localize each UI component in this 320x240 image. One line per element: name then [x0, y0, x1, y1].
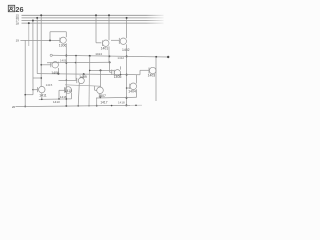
wire vertical from bus 16 to Q2 drain	[126, 18, 128, 38]
junction input line / box corner	[49, 39, 51, 41]
svg-text:1414: 1414	[95, 52, 102, 56]
wire vertical from H5 to Q5 gate rail	[75, 56, 77, 81]
junction on bottom rail at x97	[96, 105, 98, 107]
wire tie from x33 to vertical B	[33, 77, 41, 79]
terminal circle at H5 left end	[50, 54, 52, 56]
svg-text:1411: 1411	[39, 93, 46, 97]
wire vertical from bus 17 down to tie	[32, 21, 34, 95]
wire Q0 source chain down to bottom rail	[65, 43, 67, 106]
junction on bottom rail at x89	[88, 105, 89, 106]
wire vertical from bus 18 fading	[28, 23, 30, 46]
wire Q9 drain stub	[120, 66, 122, 69]
wire Q6 source to H7 left	[41, 93, 43, 99]
junction on H7 left at x42	[41, 99, 43, 101]
transistor Q11 1403 gate bar	[148, 68, 150, 74]
transistor Q7 1410 gate bar	[64, 87, 66, 92]
wire Q8 source to H7	[99, 94, 101, 98]
wire Q8 gate elbow	[95, 86, 97, 90]
svg-text:1418: 1418	[118, 101, 125, 105]
junction on H5 at x127	[126, 55, 128, 57]
junction on bottom rail at x78	[77, 105, 79, 107]
junction on line H5 at x66	[65, 55, 67, 57]
wire faint continuation x89 to bottom rail	[88, 70, 90, 105]
svg-text:26: 26	[15, 5, 23, 14]
transistor Q7 1410	[65, 87, 72, 94]
wire Q6 gate lead	[33, 89, 38, 91]
junction Q9 channel on P	[120, 74, 122, 76]
junction on bus 15 at x41	[40, 14, 42, 16]
junction on line P at x127	[126, 74, 128, 76]
wire vertical from bus 15 to Q1 drain	[108, 15, 110, 40]
svg-text:1403: 1403	[148, 74, 156, 78]
svg-text:1408: 1408	[60, 58, 67, 62]
junction at x90 y70	[89, 70, 91, 72]
transistor Q8 1407	[97, 87, 104, 94]
transistor Q9 1405 gate bar	[112, 70, 114, 76]
wire vertical from input line to bottom rail	[24, 40, 26, 106]
junction T6 gate tap at x33	[32, 89, 33, 90]
wire Q5 source to bottom rail	[78, 83, 79, 106]
wire vertical from bus 15 to Q1 gate	[96, 15, 101, 43]
transistor Q4 1406 gate bar	[50, 62, 52, 67]
transistor Q10 1404	[130, 83, 137, 90]
svg-text:1306: 1306	[59, 44, 67, 48]
svg-text:1410: 1410	[65, 89, 72, 93]
svg-text:1413: 1413	[53, 100, 60, 104]
wire P elbow to Q11 gate	[140, 70, 149, 74]
wire vertical x156 from H5	[155, 57, 157, 101]
wire vertical x97 from H7 to bottom rail	[96, 98, 98, 106]
wire Q10 gate lead	[127, 87, 130, 89]
line P	[37, 74, 140, 75]
wire Q4 source to P	[57, 68, 59, 74]
terminal dot at H5 right end	[167, 56, 169, 58]
junction on H5 at x90	[89, 55, 91, 57]
junction on bottom rail at x25	[24, 106, 26, 108]
junction on bottom rail at x112	[111, 105, 113, 107]
svg-text:1409: 1409	[79, 75, 87, 79]
wire Q1 source down to H6	[108, 46, 110, 62]
wire Q2 source chain down to bottom rail	[126, 44, 128, 105]
junction on vertical B at y78	[40, 77, 42, 79]
junction on bus 16 at x127	[126, 17, 128, 19]
transistor Q5 1409 gate bar	[76, 78, 78, 83]
transistor Q6 1411	[39, 86, 45, 92]
junction on bottom rail at x126	[125, 104, 127, 106]
junction on H6 at x76	[75, 62, 77, 64]
junction on line H6 at x66	[65, 62, 67, 64]
bottom rail 20	[16, 105, 131, 106]
transistor Q1 1401	[103, 40, 109, 46]
title figure label FIG.26	[8, 5, 23, 14]
wire vertical from H5 down x90	[89, 56, 91, 71]
junction on H5 at x76	[75, 55, 77, 57]
junction on Q5 gate lead at x66	[66, 80, 68, 82]
input line 19	[20, 39, 60, 41]
line H7 left faint	[39, 98, 72, 101]
junction on bus 17 at x33	[32, 20, 34, 22]
junction on bus 16 at x37	[36, 17, 38, 19]
svg-text:1402: 1402	[122, 48, 130, 52]
junction at H6 right end	[109, 61, 111, 63]
junction Q4 source on P	[57, 73, 59, 75]
wire Q2 gate lead	[111, 39, 119, 41]
junction on bottom rail at x136	[135, 104, 137, 106]
transistor Q5 1409	[78, 78, 84, 84]
junction Q4 gate on vertical B	[40, 64, 42, 66]
wire Q5 drain to P	[83, 74, 85, 78]
wire H6 end down to Q9 gate elbow	[110, 62, 112, 72]
junction on H7 left at x66	[66, 98, 68, 100]
junction at x100 y70	[100, 69, 102, 71]
scan fade over bus line right ends	[146, 13, 164, 25]
line H7 right	[96, 96, 137, 99]
svg-text:20: 20	[12, 105, 16, 109]
transistor Q2 1402	[120, 38, 126, 44]
svg-text:1406: 1406	[51, 71, 59, 75]
wire Q9 gate lead from x90	[90, 69, 115, 71]
junction on H7 at x127	[126, 97, 128, 99]
transistor Q11 1403	[149, 67, 156, 74]
svg-text:1415: 1415	[46, 83, 53, 87]
line H5 output rail	[52, 55, 168, 57]
svg-text:18: 18	[16, 21, 20, 25]
junction on x25 vertical at y95	[24, 94, 26, 96]
junction on H5 at x156	[155, 56, 157, 58]
junction on H7 at x100	[99, 97, 101, 99]
transistor Q9 1405	[114, 70, 120, 76]
junction Q10 gate tap on x127 chain	[126, 87, 128, 89]
junction on bus 15 at x109	[108, 14, 110, 16]
bus line 15	[22, 14, 164, 16]
svg-text:19: 19	[16, 39, 20, 43]
svg-text:1401: 1401	[101, 46, 109, 50]
svg-text:1404: 1404	[128, 89, 136, 93]
junction on H5 at x109	[108, 55, 110, 57]
wire Q4 drain stub to H6	[57, 62, 59, 63]
transistor Q0 1306	[60, 37, 66, 43]
svg-text:1417: 1417	[100, 100, 107, 104]
transistor Q6 1411 gate bar	[37, 87, 39, 92]
bus line 18	[22, 22, 164, 24]
line R faint	[65, 85, 101, 86]
transistor Q2 1402 gate bar	[118, 38, 120, 44]
wire Q8 drain vertical	[100, 70, 102, 87]
svg-text:1405: 1405	[114, 75, 122, 79]
junction on bus 15 at x96	[95, 14, 97, 16]
wire vertical A from bus 16 to node P	[36, 18, 38, 74]
transistor Q10 1404 gate bar	[129, 84, 131, 89]
wire feedback box around Q0	[50, 32, 66, 41]
bus line 16	[22, 17, 164, 19]
wire Q7 gate feed from H7 left	[59, 90, 65, 99]
wire Q5 gate lead	[59, 79, 77, 81]
junction Q5 drain on P	[83, 73, 85, 75]
junction on bus 18 at x29	[28, 22, 30, 24]
wire Q10 drain up to P	[136, 75, 138, 84]
bus line 17	[22, 20, 164, 22]
wire Q7 source to H7 left	[71, 93, 73, 99]
transistor Q4 1406	[52, 62, 58, 68]
junction on bottom rail at x66	[65, 105, 67, 107]
wire Q10 source to H7	[136, 89, 138, 97]
wire tie from x25 vertical to x33	[25, 94, 33, 96]
bottom rail fade tail	[130, 104, 142, 106]
junction on H7 left at x59	[58, 98, 60, 100]
line H6	[47, 61, 110, 64]
wire Q4 gate lead	[41, 64, 51, 66]
wire vertical B from bus 15 to Q6 drain	[40, 15, 42, 86]
